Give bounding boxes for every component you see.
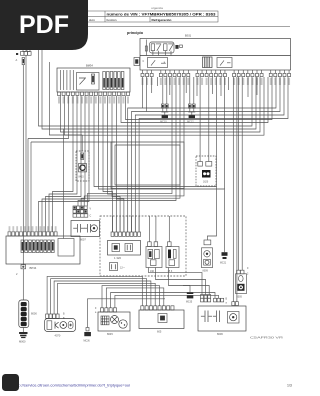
sensor 8009 (202, 240, 213, 273)
wire W44 (241, 77, 243, 270)
svg-text:PDF: PDF (19, 11, 69, 39)
wire W12 (115, 145, 180, 185)
ground M000 (19, 328, 28, 344)
wire W28 (112, 96, 120, 233)
wire W33 (81, 135, 83, 151)
wire W66 (123, 216, 125, 232)
svg-text:MC12: MC12 (187, 121, 194, 124)
wire W20 (42, 96, 85, 232)
connector stub P2 on BSI1 left edge (134, 58, 140, 66)
wire W14 (132, 77, 281, 232)
wire W47 (47, 276, 142, 314)
svg-text:MC21: MC21 (220, 263, 227, 265)
ground MC12 (187, 77, 195, 124)
wire W13 (128, 77, 276, 232)
svg-text:MC36: MC36 (84, 341, 91, 343)
svg-text:605: 605 (157, 330, 162, 334)
svg-text:BSI1: BSI1 (185, 34, 192, 38)
component 190 in 1320 zone (146, 242, 162, 273)
wire W19 (46, 96, 82, 232)
wire stub S3 (196, 77, 198, 96)
wire W37 (87, 77, 172, 206)
wire loop outer (111, 142, 184, 189)
connector stub P1 in BSI1 (180, 45, 183, 48)
wire W59 (183, 285, 190, 287)
relay unit 605 (139, 306, 184, 334)
bottom-left chip (2, 374, 19, 391)
svg-text:número de VIN : VF7MBRHYB65070: número de VIN : VF7MBRHYB65070305 / OPR … (107, 13, 216, 17)
BM34 pin row (58, 92, 130, 104)
wire accessory feed (25, 55, 27, 232)
svg-text:Refrigeración: Refrigeración (152, 18, 172, 22)
wire W35 (81, 77, 180, 206)
wire stub S1 (169, 77, 171, 95)
wire W10 (31, 141, 115, 143)
relay contact U1 in BSI1 (148, 58, 168, 68)
relay K1 in BM34 (79, 78, 86, 85)
wire W34 (78, 77, 176, 206)
wire W58 (189, 286, 191, 293)
wire W32 (63, 129, 65, 239)
wire W53 (111, 293, 215, 308)
svg-text:8007: 8007 (80, 238, 86, 242)
svg-text:1/3: 1/3 (287, 384, 292, 388)
wire W38 (199, 77, 201, 162)
sensor 8415 (dashed) (76, 151, 89, 181)
wire W50 (58, 283, 156, 314)
svg-text:ción: ción (89, 18, 95, 22)
component 153 in 1320 zone (166, 242, 179, 273)
wire W56 (156, 268, 206, 295)
relay RL2 in BSI1 (164, 44, 174, 51)
wire W60 (112, 216, 114, 232)
svg-text:A: A (16, 58, 18, 62)
fuse F1 battery feed (22, 58, 24, 65)
ground MC36 (84, 299, 166, 343)
wire W42 (247, 77, 249, 97)
svg-text:C5AFR30 VR: C5AFR30 VR (250, 336, 284, 340)
wire W17 (53, 96, 74, 232)
svg-text:8045: 8045 (107, 332, 113, 336)
wire W2 (142, 77, 144, 108)
battery 8000 (19, 300, 38, 328)
svg-text:MC35: MC35 (186, 302, 193, 304)
wire W8 (28, 96, 69, 139)
relay contact U2 in BSI1 (217, 58, 232, 68)
wire W39 (208, 77, 210, 162)
wire W61 (148, 216, 150, 242)
wire stub S7 (151, 77, 153, 93)
wire W51 (102, 286, 160, 308)
wire relay drop stubs in BSI1 (153, 51, 171, 56)
ground MC35 (186, 292, 193, 304)
wire stub S6 (256, 77, 258, 95)
module 8045 (95, 308, 130, 336)
wire W52 (106, 288, 164, 308)
wire W7 (65, 77, 265, 135)
svg-text:principio: principio (127, 31, 144, 35)
fuse F3 in BSI1 (143, 40, 148, 64)
connector strip BP34 (6, 226, 80, 276)
wire W49 (54, 281, 151, 314)
wire stub S5 (220, 77, 222, 96)
wire W43 (237, 77, 239, 270)
wire W48 (51, 279, 147, 314)
wire W16 (139, 77, 288, 232)
svg-text:MC10: MC10 (160, 121, 167, 124)
svg-text:1620: 1620 (203, 182, 209, 184)
svg-text:BP34: BP34 (30, 266, 37, 270)
svg-text:8009: 8009 (203, 270, 209, 273)
wire W55 (149, 268, 203, 295)
fuses F11-F16 in BM34 (103, 72, 124, 90)
wire W30 (121, 77, 268, 123)
wire W4 (42, 50, 256, 129)
ground MC21 (220, 252, 228, 264)
svg-text:8415: 8415 (79, 177, 85, 179)
wire W70 (138, 216, 140, 232)
header table (60, 11, 290, 27)
fuse F10 in BM34 (92, 74, 95, 84)
ECU 1320 (dashed) (100, 216, 186, 276)
connector C001 (battery junction) (16, 49, 32, 62)
module 4070 (45, 314, 76, 338)
wire W57 (169, 268, 210, 295)
ground MC10 (160, 77, 168, 124)
wire W24 (224, 77, 226, 189)
svg-text:4070: 4070 (55, 334, 61, 338)
wire W26 (103, 96, 113, 233)
wire W22 (94, 96, 217, 241)
wire W23 (216, 77, 218, 187)
wire W21 (39, 96, 90, 232)
wire W63 (168, 216, 170, 242)
wire W29 (117, 96, 124, 233)
control panel 8007 (71, 206, 100, 242)
svg-text:6005: 6005 (237, 296, 243, 299)
module BSI1 body (140, 39, 291, 71)
wire harness (28, 50, 288, 314)
svg-text:8006: 8006 (217, 332, 223, 336)
wire W11 (30, 142, 32, 232)
wire W36 (84, 77, 184, 206)
svg-text:urgencia: urgencia (151, 6, 163, 10)
svg-text:http://service.citroen.com/sch: http://service.citroen.com/schema/Sdr/im… (14, 384, 130, 388)
wire W54 (115, 295, 219, 307)
sensor 6005 (236, 267, 250, 299)
wire W45 (232, 77, 234, 302)
svg-text:C: C (90, 215, 92, 218)
fuse F2 in BSI1 (175, 45, 178, 49)
relay RL1 in BSI1 (150, 42, 175, 53)
svg-text:función: función (107, 18, 117, 22)
wire W27 (108, 96, 117, 233)
wire W15 (135, 77, 284, 232)
wire W64 (115, 216, 117, 232)
wire stub S4 (211, 77, 213, 94)
wire W9 (27, 139, 29, 232)
svg-text:BM34: BM34 (86, 64, 93, 68)
wire W3 (146, 77, 148, 112)
wire W69 (134, 216, 136, 232)
svg-text:M000: M000 (19, 340, 26, 344)
wire battery positive feed (22, 65, 24, 265)
svg-text:1 320: 1 320 (114, 256, 121, 260)
pressure switch 1620 (dashed) (196, 156, 216, 186)
wire battery stub to battery (22, 269, 24, 300)
wire W67 (127, 216, 129, 232)
wire stub S2 (185, 77, 187, 93)
svg-text:8000: 8000 (31, 312, 37, 316)
wire W1 (39, 50, 253, 126)
svg-text:12—: 12— (120, 267, 126, 270)
wire W46 (236, 77, 238, 302)
wire W41 (228, 77, 230, 90)
wire W6 (61, 77, 261, 132)
wire W31 (126, 77, 273, 120)
heater grid element in BSI1 (203, 57, 213, 68)
BSI1 pin row (141, 70, 291, 85)
fuse box BM34 body (57, 68, 130, 92)
wire W40 (157, 77, 159, 86)
wire W65 (119, 216, 121, 232)
wire W18 (49, 96, 77, 232)
blower unit 8006 (198, 295, 246, 336)
wire W62 (155, 216, 157, 242)
wire W5 (49, 62, 82, 135)
wire W68 (131, 216, 133, 232)
wire W25 (99, 96, 225, 253)
PDF badge (0, 0, 88, 50)
